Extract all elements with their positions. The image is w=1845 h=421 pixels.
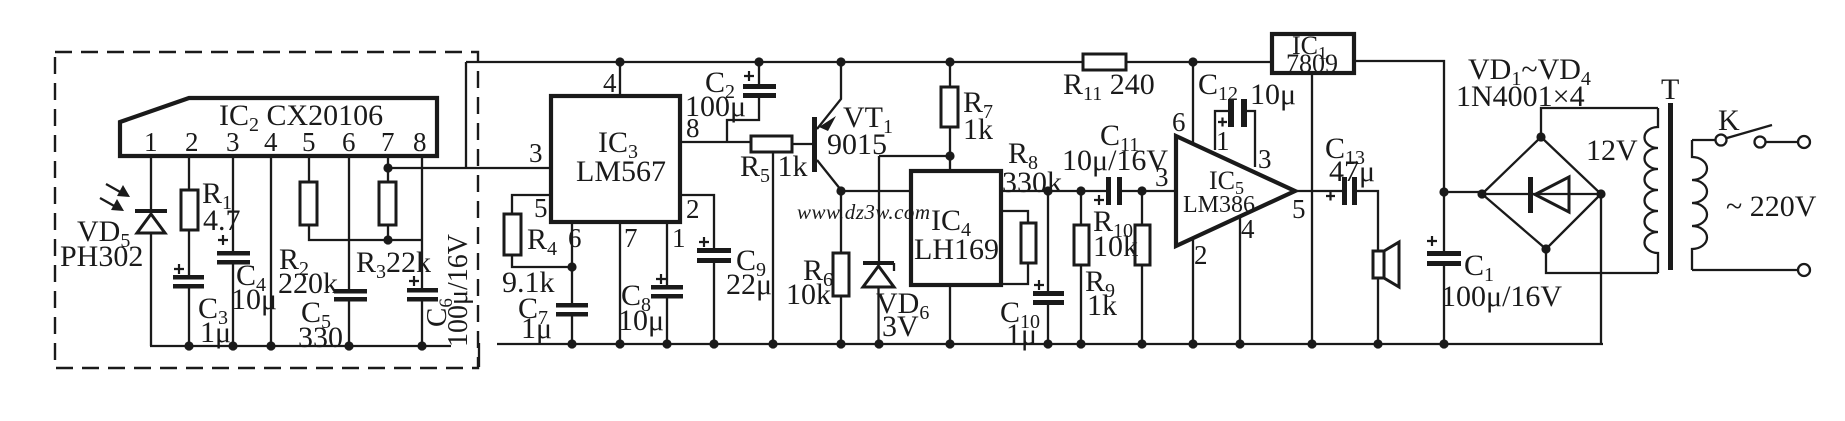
op-amp U3: IC4 LH169 body [911,171,1001,285]
node bridge left [1477,189,1486,198]
svg-text:4: 4 [1241,214,1255,244]
wire pin7 stub [387,156,389,182]
capacitor C5 [334,289,367,294]
terminal bottom [1798,264,1810,276]
svg-text:3: 3 [1155,162,1169,192]
wire IC3 pin1 to C8 [666,222,668,286]
wire R5 to VT1 base [792,143,813,145]
svg-text:5: 5 [302,127,316,157]
svg-text:12V: 12V [1586,134,1638,167]
wire IC3 pin4 [619,62,621,96]
node IC4/ground [945,339,954,348]
node VD6/ground [874,339,883,348]
node C7/ground [567,339,576,348]
wire IC3 pin8 to R5 [680,141,751,143]
svg-text:R322k: R322k [356,246,431,283]
svg-text:10k: 10k [786,278,831,311]
wire pin4 to ground [270,156,272,346]
dashed module box [55,52,478,368]
resistor R7 [949,62,951,87]
node R10/ground [1076,339,1085,348]
svg-text:7: 7 [624,223,638,253]
wire IC3 pin5 to R4 [512,195,551,214]
svg-text:3V: 3V [882,310,919,343]
op-amp U2: IC3 LM567 body [551,96,680,222]
capacitor C1 [1427,236,1437,246]
node VT1 emitter on rail [836,57,845,66]
resistor R1 [181,190,198,230]
wire IC1 ground pin [1311,73,1313,344]
svg-text:4.7: 4.7 [203,204,241,237]
ground rail inside module [150,345,451,347]
speaker [1373,251,1384,278]
capacitor C11 [1106,177,1111,205]
svg-text:100μ/16V: 100μ/16V [443,234,474,347]
svg-text:5: 5 [1292,194,1306,224]
svg-text:6: 6 [342,127,356,157]
node C9/ground [709,339,718,348]
wire R5 branch to ground [772,152,774,343]
wire pin2 to R1 [188,156,190,190]
svg-text:7: 7 [381,127,395,157]
wire IC3 pin7 to ground [619,222,621,344]
svg-text:LH169: LH169 [914,233,999,266]
node IC1 gnd/ground [1307,339,1316,348]
wire VD6 top to R7 bottom [879,155,950,157]
node VT1 collector [836,186,845,195]
wire IC4 output [1001,190,1106,192]
wire pin3 to C4 [232,156,234,252]
node R9/ground [1137,339,1146,348]
node R3 bottom [383,235,392,244]
svg-text:1k: 1k [1087,289,1117,322]
capacitor C2 [758,62,760,84]
wire R4 bottom to pin6 line [512,255,572,267]
node pin7/ground [615,339,624,348]
wire IC3 pin6 to C7 [571,222,573,304]
svg-text:2: 2 [686,194,700,224]
svg-text:K: K [1718,104,1740,137]
resistor R8 feedback [1001,211,1028,223]
svg-text:3: 3 [529,138,543,168]
wire IC5 pin4 to ground [1239,218,1241,344]
node R5 branch/ground [768,339,777,348]
node R4/pin6 [567,262,576,271]
wire IC5 output to C13 [1295,190,1342,192]
svg-text:100μ: 100μ [685,90,746,123]
transformer primary winding [1692,140,1707,270]
svg-text:5: 5 [534,193,548,223]
terminal top [1798,136,1810,148]
wire C13 to speaker [1357,191,1378,251]
wire pin5 to R2 [308,156,310,182]
resistor R11 [1083,54,1126,70]
top rail right of R11 [1126,61,1272,63]
wire IC3 pin2 to C9 [680,195,714,249]
ground rail outside module [497,343,1603,345]
wire IC1 input from bridge [1354,61,1444,252]
switch K [1716,135,1727,146]
svg-text:330: 330 [298,321,343,354]
node C2 on rail [754,57,763,66]
node pin3/ground [228,341,237,350]
svg-text:1μ: 1μ [1006,318,1037,351]
wire junction to bridge left corner [1444,191,1482,193]
svg-text:LM567: LM567 [576,155,666,188]
svg-text:3: 3 [1258,144,1272,174]
transformer core [1668,103,1673,270]
wire R1 to C3 [188,230,190,276]
svg-text:330k: 330k [1002,166,1062,199]
svg-text:2: 2 [185,127,199,157]
resistor R10 [1080,191,1082,225]
wire IC2 pin7 to IC3 pin3 [386,167,551,169]
bridge rectifier VD1-VD4 [1482,137,1601,249]
resistor R4 [504,214,521,255]
node bridge top [1536,132,1545,141]
node C1 top junction [1439,187,1448,196]
svg-text:22μ: 22μ [726,268,772,301]
svg-text:R11 240: R11 240 [1063,68,1155,105]
wire IC5 pin2 to ground [1192,238,1194,344]
wire +9V riser inside module [465,62,467,168]
svg-text:1k: 1k [963,113,993,146]
top +9V rail segment [466,61,1083,63]
capacitor C13 [1342,177,1347,205]
resistor R2 [300,182,317,225]
wire bridge right to ground rail [1600,194,1602,344]
svg-text:T: T [1661,73,1679,106]
wire collector to R6 [840,191,842,253]
capacitor C3 [174,264,184,274]
svg-text:47μ: 47μ [1329,155,1375,188]
capacitor C10 [1047,191,1049,292]
svg-text:10μ: 10μ [618,304,664,337]
node bridge bottom [1541,244,1550,253]
svg-text:2: 2 [1194,240,1208,270]
capacitor C8 [656,274,666,284]
wire pin1 to VD5 [150,156,152,209]
svg-text:10μ: 10μ [1250,78,1296,111]
resistor R5 [751,136,792,152]
zener diode VD6 3V [878,156,880,263]
wire IC4 bottom to ground [949,285,951,344]
node C8/ground [662,339,671,348]
light arrow 2 [100,198,116,207]
node pin4/ground [266,341,275,350]
transistor VT1 9015 [812,117,817,172]
capacitor C9 [699,237,709,247]
node C10/ground [1043,339,1052,348]
node C1/ground [1439,339,1448,348]
svg-text:4: 4 [603,68,617,98]
wire R7 to IC4 top [949,127,951,171]
node R7/VD6 [945,151,954,160]
node speaker/ground [1373,339,1382,348]
svg-text:6: 6 [1172,107,1186,137]
svg-text:1: 1 [672,223,686,253]
wire primary bottom to terminal [1692,269,1798,271]
resistor R3 [379,182,396,225]
op-amp U1: IC2 CX20106 body [120,98,437,156]
svg-text:www.dz3w.com: www.dz3w.com [797,200,931,224]
regulator IC1 7809 body [1272,34,1354,73]
svg-text:8: 8 [413,127,427,157]
capacitor C12 with pin1/pin3 stubs [1215,111,1228,150]
svg-text:10k: 10k [1093,230,1138,263]
node C6/ground [417,341,426,350]
capacitor C4 [218,235,228,245]
wire bridge bottom to secondary bottom [1546,249,1658,273]
svg-text:6: 6 [568,223,582,253]
resistor R9 [1137,186,1146,195]
node bridge right [1596,189,1605,198]
capacitor C7 [556,303,588,308]
node C10 junction [1043,186,1052,195]
photodiode VD5 [135,209,167,213]
wire pin6 to C5 [348,156,350,290]
svg-text:PH302: PH302 [60,240,143,273]
wire switch to terminal [1766,141,1798,143]
wire IC5 pin6 to rail [1192,62,1194,144]
node IC3 pin4 on rail [615,57,624,66]
node C5/ground [344,341,353,350]
svg-text:10μ/16V: 10μ/16V [1062,144,1168,177]
svg-text:~ 220V: ~ 220V [1726,190,1817,223]
resistor R6 [833,253,849,296]
wire R2 bottom to R3 bottom to pin8 line [309,225,422,240]
wire pin8 to C6 [421,156,423,289]
light arrow 1 [106,184,122,193]
svg-text:3: 3 [226,127,240,157]
svg-text:1: 1 [1216,126,1230,156]
transformer T secondary winding [1645,108,1659,273]
node R6/ground [836,339,845,348]
wire bridge top to secondary top [1541,108,1658,137]
capacitor C6 [409,276,419,286]
wire primary top to switch [1692,139,1715,141]
node pin7 [383,163,392,172]
op-amp U4: IC5 LM386 body [1176,136,1295,246]
svg-text:4: 4 [264,127,278,157]
svg-text:1μ: 1μ [521,312,552,345]
wire VT1 collector to IC4 [841,190,911,192]
svg-text:1: 1 [144,127,158,157]
svg-text:100μ/16V: 100μ/16V [1441,280,1562,313]
node R10 junction [1076,186,1085,195]
node pin2/ground [184,341,193,350]
svg-text:1μ: 1μ [200,316,231,349]
ground rail corner stub at dashed border [478,343,480,367]
